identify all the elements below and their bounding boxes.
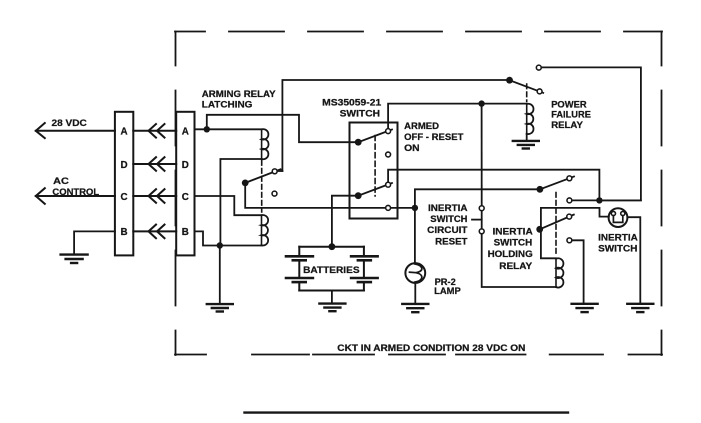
switch arm holding relay pole 2 <box>540 215 574 230</box>
svg-text:SWITCH: SWITCH <box>494 238 533 249</box>
dashed border bottom <box>175 354 662 356</box>
wire coil K2 to ground <box>526 134 528 141</box>
wire lamp riser <box>414 208 416 263</box>
battery plates left <box>286 256 313 282</box>
arrowhead 28 VDC <box>36 123 45 138</box>
wire row C to coil lower top <box>195 196 262 215</box>
svg-text:ON: ON <box>404 143 420 154</box>
svg-text:A: A <box>182 126 189 137</box>
S1 contact mid unconnected <box>386 152 391 157</box>
S1 pole1 pivot <box>355 139 362 146</box>
wire battery riser to MS pole2 <box>332 196 358 247</box>
bottom separator line <box>245 411 569 413</box>
wire contact out1 to right rail <box>572 199 641 201</box>
relay K3 coil holding <box>556 258 563 287</box>
wire row A to arming relay coil and node <box>195 128 262 130</box>
mechanical link dashes power failure relay <box>526 84 528 102</box>
wire reset terminals drop <box>481 104 483 206</box>
svg-text:LATCHING: LATCHING <box>202 100 253 111</box>
wire battery to ground <box>331 291 333 304</box>
ground G3 <box>319 304 345 312</box>
svg-text:AC: AC <box>53 176 69 187</box>
wire 28VDC arrow line row A <box>36 130 115 132</box>
ground G5 <box>513 141 539 149</box>
power failure relay pivot <box>506 77 513 84</box>
svg-text:SWITCH: SWITCH <box>340 108 380 119</box>
svg-text:RELAY: RELAY <box>499 261 533 272</box>
ground G6 <box>572 304 598 312</box>
wire contact out2 to ground <box>572 240 583 303</box>
ground G2 <box>207 304 233 311</box>
relay K2 coil power failure <box>527 104 534 134</box>
arrowhead AC CONTROL <box>36 188 45 204</box>
svg-text:OFF - RESET: OFF - RESET <box>404 132 463 143</box>
wire arming pivot to MS switch common bottom <box>245 183 415 208</box>
holding relay contact out2 <box>567 238 572 243</box>
battery plates right <box>351 256 378 282</box>
relay K1 coil lower <box>262 215 269 246</box>
svg-text:SWITCH: SWITCH <box>598 244 637 255</box>
svg-text:MS35059-21: MS35059-21 <box>322 97 382 108</box>
holding relay contact out1 <box>567 198 572 203</box>
svg-text:HOLDING: HOLDING <box>488 249 533 260</box>
dashed border left <box>175 32 177 356</box>
reset terminal upper <box>479 206 484 211</box>
svg-text:INERTIA: INERTIA <box>493 226 533 237</box>
svg-text:C: C <box>182 192 189 203</box>
wire AC CONTROL arrow line row C <box>36 195 115 197</box>
S1 contact NO1 <box>386 129 391 134</box>
switch arm holding relay pole 1 <box>540 177 574 190</box>
S1 pole2 pivot <box>355 192 362 199</box>
svg-text:B: B <box>120 227 127 238</box>
ground G4 <box>402 304 428 312</box>
wire S1 NO1 up to top rail <box>388 104 527 129</box>
svg-text:LAMP: LAMP <box>434 286 461 297</box>
holding relay pivot 2 <box>536 226 543 233</box>
inertia switch SW body circle <box>609 208 628 227</box>
wire row B to coil lower bottom <box>195 231 262 245</box>
node holding junction <box>596 197 602 203</box>
svg-text:CKT IN ARMED CONDITION 28 VDC: CKT IN ARMED CONDITION 28 VDC ON <box>337 343 525 354</box>
label tick reset <box>472 219 482 221</box>
node lamp branch junction <box>412 205 418 211</box>
mechanical link dashes holding relay <box>555 193 557 257</box>
wire top rail from arming relay NO to power failure relay <box>282 80 509 171</box>
switch S1 MS35059-21 box <box>350 123 398 219</box>
svg-text:FAILURE: FAILURE <box>551 110 591 121</box>
node battery top junction <box>329 243 336 250</box>
holding relay pivot 1 <box>537 186 544 193</box>
holding relay contact NO1 <box>567 176 572 181</box>
svg-text:A: A <box>120 126 127 137</box>
svg-text:C: C <box>120 192 127 203</box>
holding relay contact NO2 <box>567 214 572 219</box>
wire NO contact to right rail down to holding node <box>542 67 641 200</box>
wire reset lower to holding coil bottom <box>482 234 556 287</box>
S1 contact NO2 <box>386 182 391 187</box>
node B net junction <box>217 242 223 248</box>
switch arm S1 pole 1 <box>358 130 392 143</box>
arming relay NC contact <box>272 191 277 196</box>
lamp filament <box>410 264 422 282</box>
inertia switch pendulum <box>613 216 622 223</box>
switch arm S1 pole 2 <box>358 183 392 196</box>
svg-text:B: B <box>182 227 189 238</box>
wire coil upper bottom to left drop <box>220 159 261 246</box>
wire connector J2 ground drop <box>219 246 221 304</box>
connector J1 box <box>115 112 133 256</box>
svg-text:D: D <box>120 160 127 171</box>
wire lamp to ground <box>414 283 416 303</box>
wire pivot2 drop <box>541 208 556 258</box>
svg-text:CONTROL: CONTROL <box>52 187 99 198</box>
svg-text:CIRCUIT: CIRCUIT <box>427 225 467 236</box>
arming relay NO contact <box>272 169 277 174</box>
connector J2 box <box>176 112 194 256</box>
svg-text:INERTIA: INERTIA <box>598 232 638 243</box>
mechanical link dashes arming relay <box>261 161 263 213</box>
wire lamp node up to holding relay pivot1 <box>415 189 540 208</box>
mechanical link dashes MS switch <box>374 136 376 197</box>
wire jog A to MS switch pole 1 <box>207 115 358 142</box>
wire row B between connectors <box>133 230 176 232</box>
wire row A between connectors <box>133 130 176 132</box>
inertia switch contacts <box>611 211 615 215</box>
svg-text:ARMED: ARMED <box>404 121 439 132</box>
switch arm arming relay <box>245 169 280 183</box>
switch arm power failure relay <box>510 80 544 93</box>
batteries BT1 box <box>299 247 364 291</box>
wire row B to ground <box>74 231 115 254</box>
wire inertia switch feed <box>541 208 609 217</box>
svg-text:BATTERIES: BATTERIES <box>303 265 360 276</box>
arming relay pivot <box>242 180 249 187</box>
wire between reset terminals <box>481 211 483 228</box>
lamp DS1 PR-2 circle <box>405 263 425 283</box>
svg-text:ARMING RELAY: ARMING RELAY <box>202 89 276 100</box>
wire S1 NO2 to holding relay drop <box>388 170 599 201</box>
dashed border top <box>175 31 662 33</box>
svg-text:INERTIA: INERTIA <box>428 203 468 214</box>
reset terminal lower <box>479 229 484 234</box>
wire row D between connectors <box>133 163 176 165</box>
chevrons row C <box>149 189 165 203</box>
node top rail branch junction <box>478 100 484 106</box>
chevrons row A <box>149 124 165 138</box>
svg-text:POWER: POWER <box>551 99 586 110</box>
wire inertia switch to right ground rail <box>627 217 640 303</box>
ground G7 <box>627 304 653 312</box>
svg-text:RELAY: RELAY <box>551 120 583 131</box>
svg-text:D: D <box>182 160 189 171</box>
dashed border right <box>661 32 663 356</box>
chevrons row B <box>149 225 165 239</box>
power failure relay contact NC <box>537 89 542 94</box>
svg-text:SWITCH: SWITCH <box>430 214 467 225</box>
power failure relay contact NO <box>536 65 541 70</box>
node A junction <box>204 126 210 132</box>
relay K1 coil upper (arming relay latching) <box>262 129 269 159</box>
wire arming relay NO contact stub <box>278 170 283 172</box>
svg-text:28 VDC: 28 VDC <box>52 118 87 129</box>
chevrons row D <box>149 157 165 171</box>
svg-text:RESET: RESET <box>435 236 468 247</box>
S1 contact bottom on wire <box>386 205 391 210</box>
ground G1 <box>61 255 88 263</box>
wire row C between connectors <box>133 195 176 197</box>
